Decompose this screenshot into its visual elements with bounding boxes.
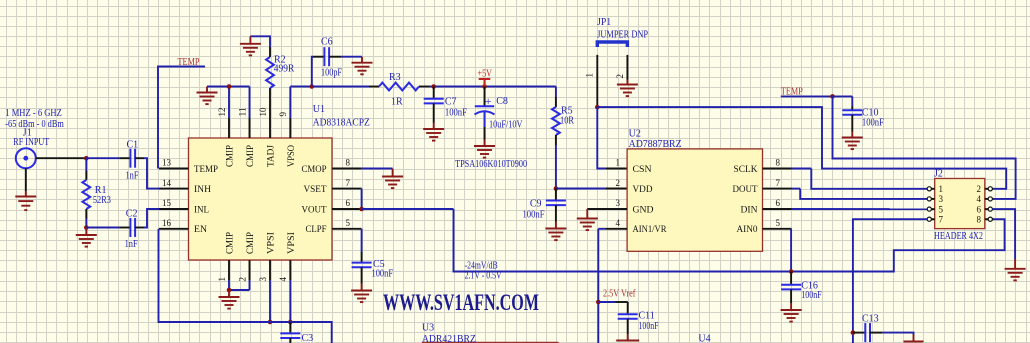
svg-text:9: 9 bbox=[278, 112, 288, 117]
svg-text:1: 1 bbox=[585, 73, 595, 78]
svg-text:1nF: 1nF bbox=[125, 239, 138, 250]
svg-text:100nF: 100nF bbox=[639, 321, 659, 332]
svg-text:14: 14 bbox=[162, 178, 172, 188]
svg-text:3: 3 bbox=[939, 194, 944, 204]
svg-text:ADR421BRZ: ADR421BRZ bbox=[422, 334, 476, 343]
svg-text:TEMP: TEMP bbox=[194, 165, 218, 175]
svg-text:1: 1 bbox=[939, 184, 944, 194]
svg-text:WWW.SV1AFN.COM: WWW.SV1AFN.COM bbox=[383, 290, 539, 315]
svg-text:4: 4 bbox=[616, 218, 621, 228]
svg-text:JUMPER DNP: JUMPER DNP bbox=[597, 29, 648, 40]
svg-text:TADJ: TADJ bbox=[267, 145, 277, 167]
svg-text:1: 1 bbox=[616, 158, 621, 168]
svg-text:8: 8 bbox=[977, 214, 982, 224]
svg-text:HEADER 4X2: HEADER 4X2 bbox=[934, 231, 983, 242]
svg-text:VPSO: VPSO bbox=[287, 145, 297, 167]
svg-text:VPSI: VPSI bbox=[287, 232, 297, 254]
svg-text:SCLK: SCLK bbox=[734, 165, 758, 175]
svg-text:100nF: 100nF bbox=[523, 210, 545, 221]
svg-text:2: 2 bbox=[977, 184, 982, 194]
svg-text:R3: R3 bbox=[389, 72, 401, 83]
svg-text:U2: U2 bbox=[629, 129, 641, 140]
svg-text:CMIP: CMIP bbox=[226, 232, 236, 254]
svg-text:100nF: 100nF bbox=[372, 269, 394, 280]
svg-text:12: 12 bbox=[217, 108, 227, 117]
svg-text:8: 8 bbox=[776, 158, 781, 168]
svg-text:8: 8 bbox=[346, 158, 351, 168]
svg-text:C9: C9 bbox=[530, 199, 542, 210]
svg-text:VSET: VSET bbox=[304, 185, 327, 195]
svg-text:-65 dBm - 0 dBm: -65 dBm - 0 dBm bbox=[5, 119, 64, 130]
svg-text:AIN1/VR: AIN1/VR bbox=[633, 225, 668, 235]
svg-text:AD8318ACPZ: AD8318ACPZ bbox=[313, 118, 370, 129]
svg-text:+5V: +5V bbox=[478, 69, 493, 80]
svg-text:7: 7 bbox=[939, 214, 944, 224]
svg-text:INH: INH bbox=[194, 185, 211, 195]
svg-text:1 MHZ - 6 GHZ: 1 MHZ - 6 GHZ bbox=[5, 108, 62, 119]
svg-text:10R: 10R bbox=[560, 116, 574, 127]
svg-text:3: 3 bbox=[258, 277, 268, 282]
svg-text:VPSI: VPSI bbox=[267, 232, 277, 254]
svg-text:6: 6 bbox=[776, 198, 781, 208]
svg-text:DOUT: DOUT bbox=[733, 185, 758, 195]
svg-text:U1: U1 bbox=[313, 104, 325, 115]
svg-text:1R: 1R bbox=[391, 97, 403, 108]
svg-text:C2: C2 bbox=[126, 209, 138, 220]
svg-text:10uF/10V: 10uF/10V bbox=[489, 120, 523, 131]
svg-text:4: 4 bbox=[278, 277, 288, 282]
svg-text:3: 3 bbox=[616, 198, 621, 208]
svg-text:GND: GND bbox=[633, 205, 654, 215]
svg-text:CMIP: CMIP bbox=[246, 232, 256, 254]
svg-text:4: 4 bbox=[977, 194, 982, 204]
svg-text:AD7887BRZ: AD7887BRZ bbox=[629, 139, 682, 150]
svg-text:2.1V - 0.5V: 2.1V - 0.5V bbox=[465, 270, 503, 281]
svg-text:5: 5 bbox=[939, 204, 944, 214]
svg-text:100nF: 100nF bbox=[445, 108, 467, 119]
svg-text:100nF: 100nF bbox=[862, 118, 884, 129]
svg-text:11: 11 bbox=[237, 108, 247, 117]
svg-text:+: + bbox=[485, 94, 492, 108]
svg-text:U4: U4 bbox=[698, 334, 710, 343]
svg-text:6: 6 bbox=[346, 198, 351, 208]
svg-text:VOUT: VOUT bbox=[302, 205, 327, 215]
svg-text:EN: EN bbox=[194, 225, 207, 235]
svg-text:CMOP: CMOP bbox=[302, 165, 327, 175]
svg-text:C1: C1 bbox=[127, 140, 139, 151]
svg-text:C13: C13 bbox=[862, 314, 879, 325]
svg-text:AIN0: AIN0 bbox=[737, 225, 758, 235]
svg-text:2.5V Vref: 2.5V Vref bbox=[603, 289, 636, 300]
svg-text:C8: C8 bbox=[496, 96, 508, 107]
svg-text:100nF: 100nF bbox=[801, 290, 822, 301]
svg-text:7: 7 bbox=[776, 178, 781, 188]
svg-text:16: 16 bbox=[162, 218, 172, 228]
svg-text:5: 5 bbox=[776, 218, 781, 228]
svg-text:U3: U3 bbox=[422, 323, 434, 334]
svg-text:TPSA106K010T0900: TPSA106K010T0900 bbox=[455, 159, 527, 170]
svg-text:TEMP: TEMP bbox=[178, 57, 200, 68]
svg-text:CMIP: CMIP bbox=[246, 145, 256, 167]
svg-text:5: 5 bbox=[346, 218, 351, 228]
svg-text:2: 2 bbox=[237, 277, 247, 282]
svg-text:6: 6 bbox=[977, 204, 982, 214]
svg-text:100pF: 100pF bbox=[321, 68, 342, 79]
svg-text:1nF: 1nF bbox=[126, 171, 139, 182]
svg-text:2: 2 bbox=[616, 178, 621, 188]
svg-text:1: 1 bbox=[217, 277, 227, 282]
svg-text:CMIP: CMIP bbox=[226, 145, 236, 167]
svg-text:52R3: 52R3 bbox=[93, 195, 111, 206]
svg-text:2: 2 bbox=[615, 74, 625, 79]
svg-text:15: 15 bbox=[162, 198, 172, 208]
svg-text:J2: J2 bbox=[934, 169, 943, 180]
svg-text:13: 13 bbox=[162, 158, 172, 168]
svg-text:CSN: CSN bbox=[633, 165, 652, 175]
svg-text:CLPF: CLPF bbox=[306, 225, 327, 235]
svg-text:C3: C3 bbox=[302, 333, 314, 343]
svg-text:JP1: JP1 bbox=[597, 17, 611, 28]
svg-text:499R: 499R bbox=[274, 64, 295, 75]
svg-text:C7: C7 bbox=[445, 97, 457, 108]
svg-text:VDD: VDD bbox=[633, 185, 653, 195]
svg-text:RF INPUT: RF INPUT bbox=[13, 137, 49, 148]
svg-text:C6: C6 bbox=[321, 37, 333, 48]
svg-text:10: 10 bbox=[258, 107, 268, 117]
svg-text:DIN: DIN bbox=[741, 205, 758, 215]
svg-text:INL: INL bbox=[194, 205, 209, 215]
svg-text:7: 7 bbox=[346, 178, 351, 188]
svg-text:TEMP: TEMP bbox=[781, 87, 803, 98]
